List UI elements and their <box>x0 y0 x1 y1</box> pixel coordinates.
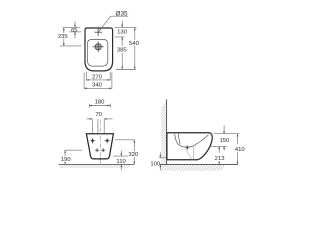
floor line (front view) <box>59 163 135 165</box>
bidet inner bowl (plan) <box>87 40 107 67</box>
bidet outer outline (plan) <box>85 28 113 71</box>
wall hatch <box>161 103 166 167</box>
dim 320 (right of front) <box>115 140 139 165</box>
mounting hole right <box>104 138 110 144</box>
dim 65 (left, vertical small) <box>69 21 81 38</box>
svg-text:190: 190 <box>61 157 72 163</box>
svg-text:235: 235 <box>58 34 68 40</box>
small cross right <box>101 148 105 152</box>
dim 70 (above front) <box>87 112 113 120</box>
bottom drain dot (front) <box>99 158 101 160</box>
svg-text:180: 180 <box>95 99 106 105</box>
floor line (side view) <box>160 163 238 165</box>
dim 150 (right of side) <box>214 125 240 150</box>
bidet profile (side) <box>167 133 212 160</box>
dim 130 (right of plan) <box>115 21 137 37</box>
wall line <box>166 99 168 164</box>
svg-text:150: 150 <box>219 138 230 144</box>
dim 540 (far right of plan) <box>116 27 140 69</box>
floor hatch (front view) <box>60 165 131 168</box>
svg-text:70: 70 <box>95 112 102 118</box>
bowl inner curve (side) <box>175 134 209 147</box>
svg-text:270: 270 <box>92 74 103 80</box>
svg-text:Ø35: Ø35 <box>116 10 128 17</box>
svg-text:340: 340 <box>92 83 103 89</box>
bidet body (front) <box>86 134 113 159</box>
small cross left <box>95 148 99 152</box>
mounting hole left <box>90 138 96 144</box>
svg-text:385: 385 <box>117 48 128 54</box>
svg-text:320: 320 <box>128 152 139 158</box>
svg-text:100: 100 <box>150 162 161 168</box>
dim 385 (right of plan) <box>117 37 128 70</box>
dim 235 (left, vertical) <box>58 28 81 46</box>
svg-text:213: 213 <box>215 156 226 162</box>
dim 190 (left of front) <box>60 150 82 164</box>
dim 270 (below plan) <box>86 72 110 81</box>
leader Ø35 <box>99 10 128 31</box>
drain symbol (side) <box>185 145 190 148</box>
svg-text:65: 65 <box>71 28 77 34</box>
floor hatch (side view) <box>161 165 224 171</box>
funnel lines (side) <box>186 147 194 160</box>
dim 340 (below plan) <box>84 73 112 90</box>
dim 410 (far right of side) <box>235 134 246 165</box>
dim 100 (left of side, floor gap) <box>150 152 166 170</box>
svg-text:540: 540 <box>129 41 140 47</box>
extension line at drain level (side) <box>209 145 227 147</box>
dim 180 (above front) <box>89 99 110 107</box>
extension lines to front body <box>92 119 104 133</box>
drain hole (plan) <box>93 41 104 52</box>
svg-text:410: 410 <box>235 147 246 153</box>
svg-text:130: 130 <box>117 30 128 36</box>
dim 110 (below right of front) <box>113 151 127 171</box>
faucet hole crosshair <box>94 28 102 36</box>
centerline (front) <box>99 120 101 164</box>
bowl back wall inner line (side) <box>178 134 180 144</box>
dim 213 (right of side) <box>215 146 226 164</box>
